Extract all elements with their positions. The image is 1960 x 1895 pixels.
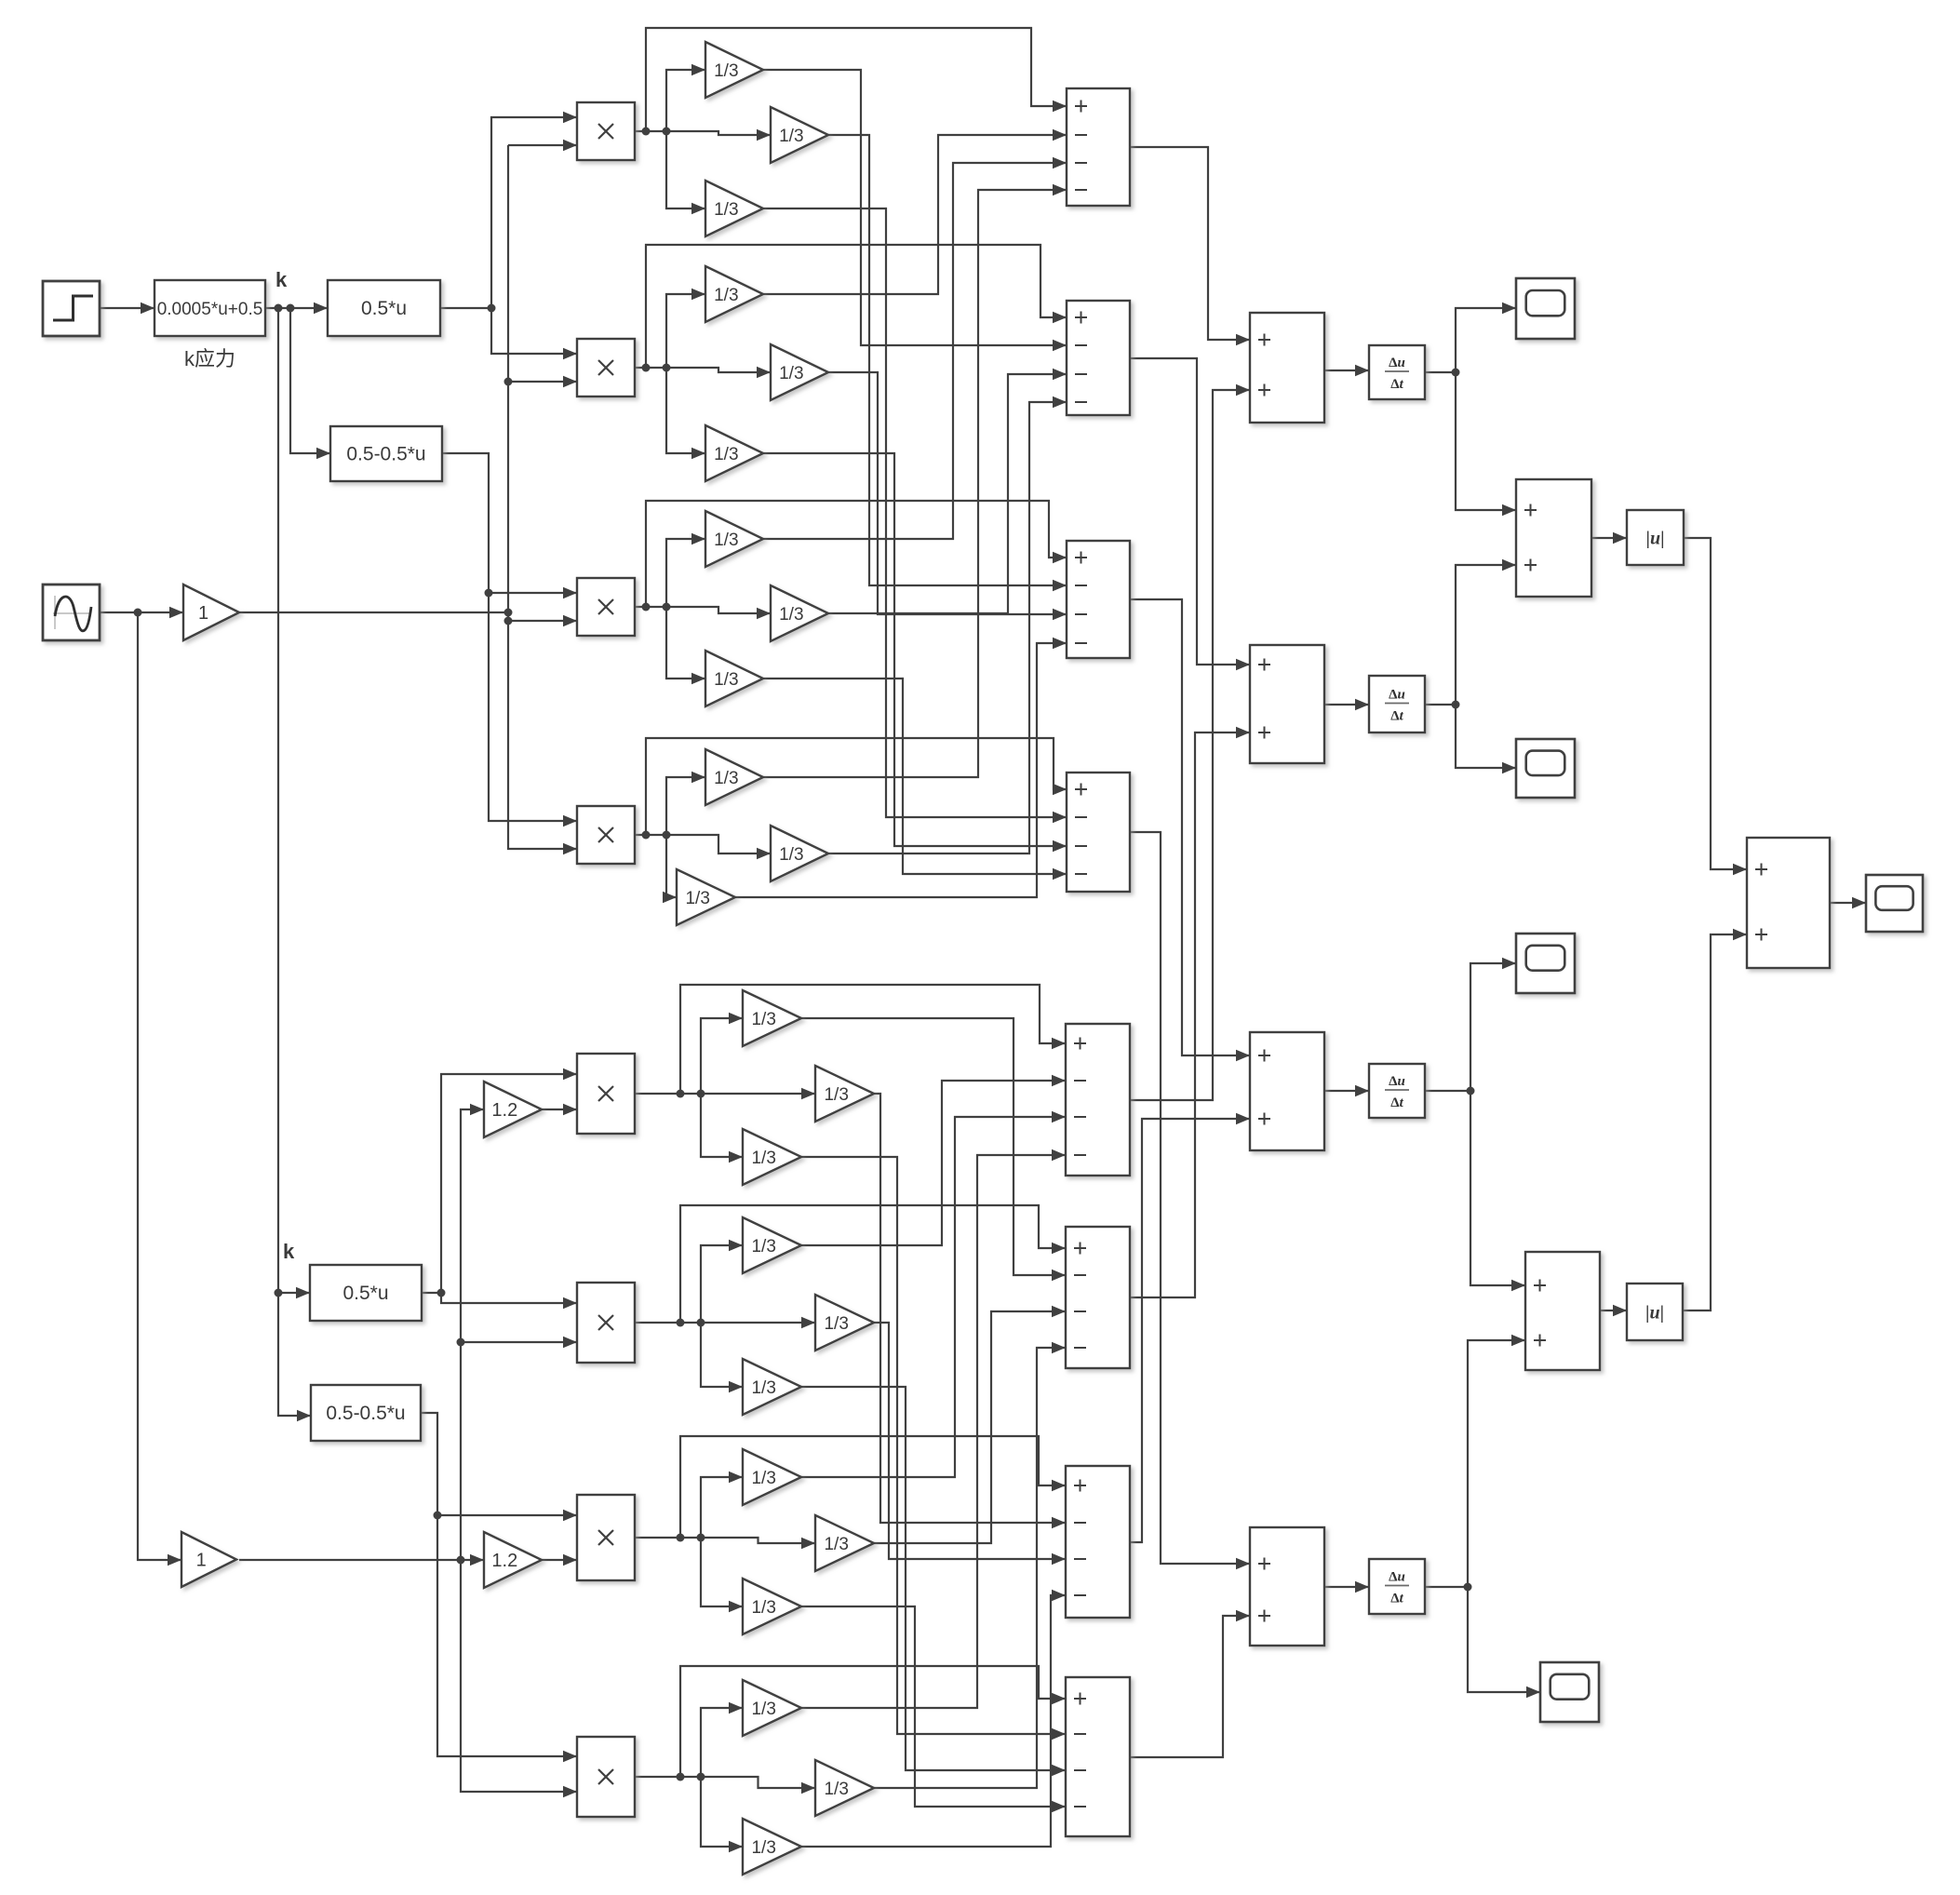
svg-text:1/3: 1/3 — [751, 1378, 775, 1398]
svg-text:Δt: Δt — [1390, 1592, 1403, 1606]
svg-text:1/3: 1/3 — [714, 61, 738, 81]
svg-text:Δt: Δt — [1390, 1095, 1403, 1110]
svg-text:1/3: 1/3 — [824, 1085, 848, 1105]
svg-text:1/3: 1/3 — [824, 1780, 848, 1799]
svg-text:1/3: 1/3 — [714, 531, 738, 550]
svg-text:0.5-0.5*u: 0.5-0.5*u — [346, 444, 425, 465]
svg-text:k应力: k应力 — [184, 347, 235, 370]
svg-text:1/3: 1/3 — [714, 286, 738, 305]
svg-text:1/3: 1/3 — [751, 1149, 775, 1168]
svg-text:1/3: 1/3 — [824, 1314, 848, 1334]
svg-text:|u|: |u| — [1645, 1303, 1664, 1324]
svg-text:1/3: 1/3 — [751, 1469, 775, 1488]
svg-text:1/3: 1/3 — [714, 769, 738, 788]
svg-text:Δt: Δt — [1390, 377, 1403, 392]
svg-text:0.5*u: 0.5*u — [342, 1283, 388, 1304]
svg-text:Δu: Δu — [1389, 1570, 1405, 1585]
svg-text:1/3: 1/3 — [824, 1535, 848, 1554]
svg-text:1/3: 1/3 — [751, 1598, 775, 1618]
svg-text:1/3: 1/3 — [751, 1838, 775, 1858]
svg-text:1/3: 1/3 — [751, 1700, 775, 1719]
svg-text:1/3: 1/3 — [779, 127, 803, 146]
svg-text:1/3: 1/3 — [714, 445, 738, 464]
svg-text:1/3: 1/3 — [779, 605, 803, 625]
svg-text:1.2: 1.2 — [491, 1100, 517, 1121]
svg-text:1/3: 1/3 — [751, 1237, 775, 1257]
svg-text:1/3: 1/3 — [779, 845, 803, 865]
svg-text:1: 1 — [196, 1551, 207, 1571]
svg-text:Δu: Δu — [1389, 1074, 1405, 1089]
svg-text:Δt: Δt — [1390, 709, 1403, 724]
svg-text:k: k — [283, 1240, 295, 1263]
svg-text:0.5*u: 0.5*u — [361, 298, 407, 319]
svg-text:0.5-0.5*u: 0.5-0.5*u — [326, 1403, 405, 1424]
svg-text:1: 1 — [198, 603, 208, 624]
svg-text:0.0005*u+0.5: 0.0005*u+0.5 — [157, 300, 263, 319]
svg-text:|u|: |u| — [1646, 529, 1665, 549]
svg-text:k: k — [275, 268, 288, 291]
svg-text:1/3: 1/3 — [714, 670, 738, 690]
svg-text:1/3: 1/3 — [751, 1010, 775, 1029]
svg-text:1.2: 1.2 — [491, 1551, 517, 1571]
svg-text:1/3: 1/3 — [685, 889, 709, 908]
svg-text:1/3: 1/3 — [779, 364, 803, 383]
svg-text:1/3: 1/3 — [714, 200, 738, 220]
svg-text:Δu: Δu — [1389, 688, 1405, 703]
svg-text:Δu: Δu — [1389, 356, 1405, 370]
